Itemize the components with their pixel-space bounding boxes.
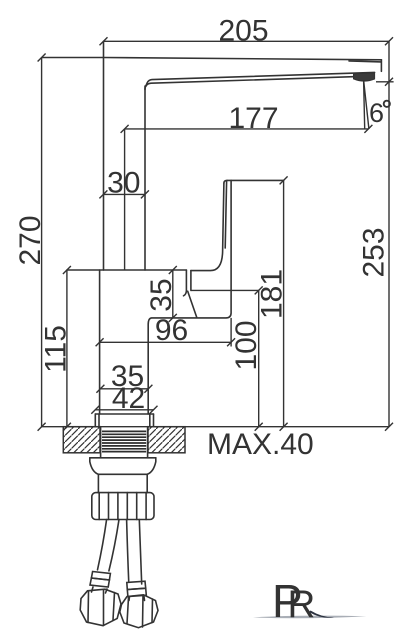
escutcheon plate right (153, 414, 155, 427)
bell right side (147, 458, 156, 475)
dim 253 ticks (385, 78, 393, 431)
inner body vertical line (99, 270, 101, 414)
dim 115 line (body left edge) (66, 270, 68, 427)
logo R tail (309, 611, 334, 618)
dim 270 ticks (38, 54, 46, 431)
dim 177 line (125, 128, 369, 130)
dim 177 ticks (121, 125, 373, 133)
svg-text:253: 253 (358, 227, 391, 277)
dim 205 line (104, 40, 390, 42)
left hose neck (92, 587, 108, 593)
left hose inner line (109, 520, 119, 571)
shank thread lines (102, 431, 146, 451)
dim 100 top extension (191, 289, 259, 291)
dim 96 ticks (96, 338, 236, 346)
dim 205 ticks (100, 37, 394, 45)
cartridge slot right line (190, 271, 192, 291)
spout underside outline (145, 77, 357, 90)
svg-text:96: 96 (155, 314, 188, 347)
right hose neck (129, 597, 145, 601)
svg-text:42: 42 (112, 382, 145, 415)
nut rib lines (98, 493, 100, 520)
spout top line (104, 58, 382, 60)
handle blade right edge / body front edge (148, 180, 231, 414)
dim 30 line (103, 193, 144, 195)
dim 177 left extension going down (124, 129, 126, 270)
svg-text:30: 30 (107, 167, 140, 200)
dimension lines and ticks (38, 37, 394, 430)
countertop left hatch block (63, 427, 100, 453)
handle blade left outer edge (191, 183, 224, 271)
svg-text:MAX.40: MAX.40 (207, 428, 314, 461)
dim 270 top extension (42, 57, 104, 59)
dim 96 right extension (230, 318, 232, 347)
svg-text:115: 115 (40, 325, 73, 373)
right hex nut (120, 595, 158, 628)
left ferrule band 1 (91, 572, 110, 581)
bell washer top (90, 457, 156, 459)
dim 35 lower line (100, 388, 148, 390)
bell left side (90, 458, 99, 475)
handle blade top (227, 179, 284, 181)
6 degree vertical line (364, 80, 365, 129)
spout underside highlight line (146, 72, 375, 86)
right ferrule band 2 (127, 588, 146, 596)
dim 30 ticks (99, 190, 148, 198)
dim 100 ticks (255, 286, 263, 430)
escutcheon plate top (95, 413, 153, 415)
dim 181 ticks (280, 176, 288, 430)
left hex nut (80, 589, 121, 626)
dim 35 lower ticks (96, 385, 152, 393)
escutcheon plate left (94, 414, 96, 427)
shank left edge (100, 427, 102, 458)
riser left edge (103, 41, 105, 270)
dim 253 top extension (376, 81, 394, 83)
left nut facet lines (88, 590, 115, 626)
escutcheon rim right (149, 414, 151, 427)
dim 42 ticks (91, 406, 157, 414)
collar right (146, 474, 148, 492)
svg-text:177: 177 (228, 102, 278, 135)
dimension texts (218, 15, 384, 136)
escutcheon rim left (98, 414, 100, 427)
shank right edge (147, 427, 149, 458)
collar left (97, 474, 99, 492)
right hose inner line (127, 520, 129, 582)
svg-text:6: 6 (369, 98, 384, 128)
svg-text:205: 205 (218, 15, 268, 48)
cartridge slot left line (184, 270, 187, 296)
handle blade top corner (224, 180, 227, 183)
right ferrule band 1 (127, 581, 146, 589)
aerator (354, 73, 375, 81)
svg-text:100: 100 (230, 320, 263, 370)
left ferrule band 2 (90, 578, 109, 587)
svg-text:181: 181 (256, 269, 289, 319)
dim 42 line (95, 409, 153, 411)
ribbed nut outline (92, 493, 154, 520)
countertop surface line (42, 426, 389, 428)
dim 35 upper ticks (169, 266, 177, 322)
left hose outer line (98, 520, 107, 570)
countertop right hatch block (148, 427, 185, 453)
svg-text:35: 35 (145, 278, 178, 311)
svg-text:270: 270 (14, 215, 47, 265)
body top line (67, 269, 186, 271)
dim 181 line (283, 180, 285, 426)
dim 35 upper line (172, 270, 174, 318)
6 degree slanted line (364, 80, 369, 129)
dim 96 line (100, 341, 232, 343)
diagonal feature line (188, 291, 197, 317)
dim 100 line (258, 290, 260, 426)
handle blade left inner line (225, 182, 226, 249)
spout tip chamfer line (349, 61, 381, 62)
dim 115 ticks (63, 266, 71, 431)
logo swoosh (253, 616, 367, 619)
dim 253 line (388, 41, 390, 426)
dim 270 line (41, 58, 43, 427)
bell bottom (98, 473, 147, 475)
spout tip face (380, 60, 382, 72)
right nut facet lines (127, 596, 153, 628)
right hose outer line (139, 520, 141, 585)
svg-text:R: R (288, 583, 316, 626)
riser right edge (144, 86, 146, 270)
